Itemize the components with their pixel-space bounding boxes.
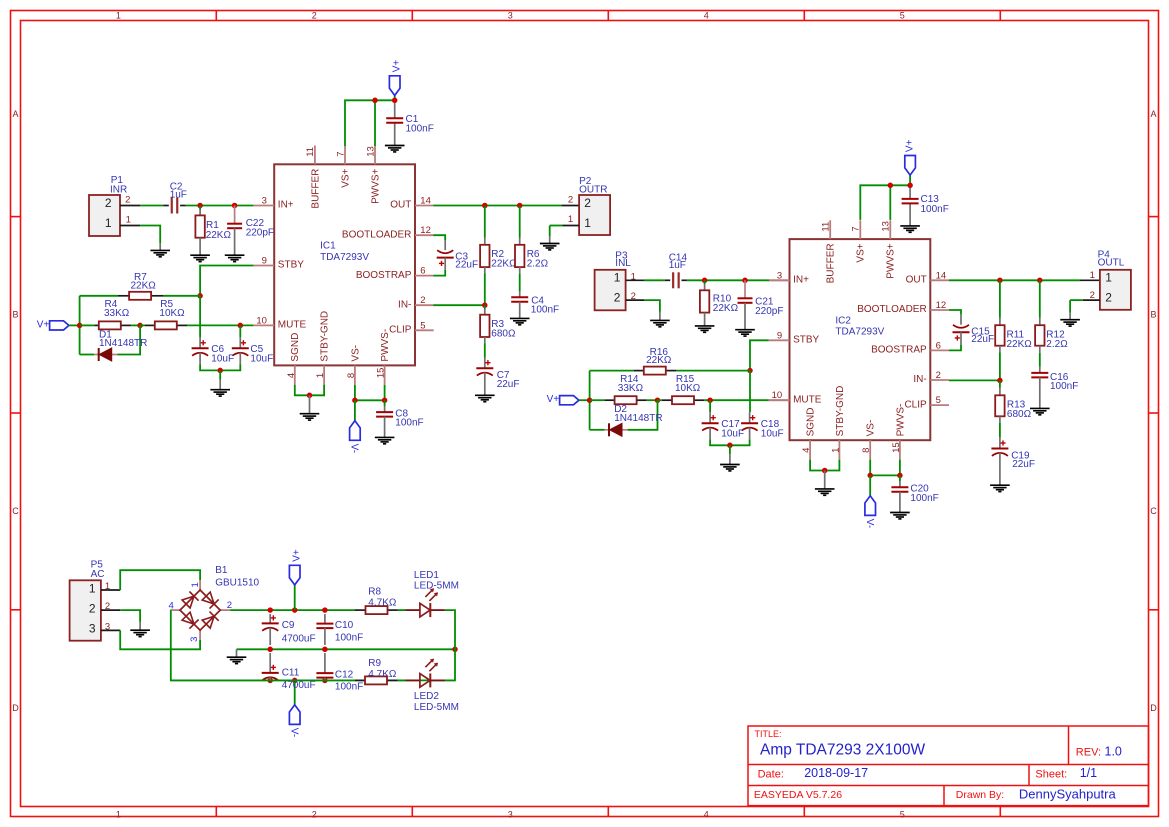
svg-text:2.2Ω: 2.2Ω	[527, 259, 549, 270]
svg-text:BOOTLOADER: BOOTLOADER	[857, 304, 926, 315]
svg-text:TITLE:: TITLE:	[755, 729, 782, 739]
svg-text:BOOSTRAP: BOOSTRAP	[356, 270, 412, 281]
svg-text:9: 9	[262, 256, 267, 267]
svg-text:PWVS+: PWVS+	[886, 243, 897, 278]
svg-text:2: 2	[105, 196, 112, 210]
svg-text:2: 2	[89, 601, 96, 615]
svg-text:B: B	[1150, 310, 1156, 320]
svg-text:7: 7	[851, 226, 862, 231]
svg-text:2: 2	[420, 295, 425, 306]
svg-text:V-: V-	[349, 444, 360, 453]
svg-text:GBU1510: GBU1510	[215, 578, 259, 589]
svg-text:C: C	[1150, 506, 1157, 516]
svg-text:V+: V+	[37, 319, 50, 330]
svg-text:10uF: 10uF	[250, 353, 273, 364]
svg-text:OUT: OUT	[390, 200, 411, 211]
svg-text:5: 5	[936, 395, 941, 406]
svg-text:2: 2	[614, 290, 621, 304]
svg-text:V-: V-	[864, 519, 875, 528]
svg-text:1: 1	[89, 581, 96, 595]
svg-text:LED2: LED2	[414, 691, 439, 702]
svg-text:100nF: 100nF	[406, 124, 434, 135]
svg-text:6: 6	[936, 340, 941, 351]
svg-text:LED-5MM: LED-5MM	[414, 702, 459, 713]
svg-text:1: 1	[315, 373, 326, 378]
svg-text:220pF: 220pF	[755, 306, 783, 317]
svg-text:V+: V+	[905, 139, 916, 152]
svg-text:10uF: 10uF	[761, 429, 784, 440]
svg-text:1/1: 1/1	[1080, 766, 1097, 780]
svg-text:2: 2	[125, 195, 130, 206]
svg-text:1: 1	[1090, 270, 1095, 281]
svg-text:IN+: IN+	[793, 275, 809, 286]
svg-text:DennySyahputra: DennySyahputra	[1019, 786, 1117, 801]
svg-text:22KΩ: 22KΩ	[491, 259, 517, 270]
svg-text:OUT: OUT	[906, 275, 927, 286]
svg-text:PWVS+: PWVS+	[370, 168, 381, 203]
svg-text:2: 2	[1105, 290, 1112, 304]
svg-text:3: 3	[189, 637, 200, 642]
svg-text:1N4148TR: 1N4148TR	[614, 413, 662, 424]
svg-text:4: 4	[704, 11, 709, 21]
svg-text:1uF: 1uF	[170, 189, 187, 200]
svg-text:100nF: 100nF	[910, 493, 938, 504]
svg-text:4: 4	[286, 373, 297, 378]
svg-text:3: 3	[262, 196, 267, 207]
svg-text:1N4148TR: 1N4148TR	[99, 338, 147, 349]
svg-text:C: C	[12, 506, 19, 516]
svg-text:CLIP: CLIP	[904, 399, 927, 410]
svg-text:22KΩ: 22KΩ	[646, 355, 672, 366]
svg-text:15: 15	[891, 442, 902, 453]
svg-text:220pF: 220pF	[246, 228, 274, 239]
svg-text:LED1: LED1	[414, 570, 439, 581]
svg-text:12: 12	[420, 225, 431, 236]
svg-text:Drawn By:: Drawn By:	[956, 789, 1004, 801]
svg-text:100nF: 100nF	[1050, 381, 1078, 392]
svg-text:4700uF: 4700uF	[282, 634, 316, 645]
svg-text:R8: R8	[368, 587, 381, 598]
svg-text:15: 15	[376, 368, 387, 379]
svg-text:1: 1	[614, 271, 621, 285]
svg-text:VS+: VS+	[856, 243, 867, 262]
svg-text:PWVS-: PWVS-	[380, 329, 391, 362]
svg-text:BUFFER: BUFFER	[826, 243, 837, 283]
svg-text:8: 8	[346, 373, 357, 378]
svg-text:TDA7293V: TDA7293V	[835, 327, 884, 338]
svg-text:3: 3	[508, 809, 513, 819]
svg-text:Amp TDA7293 2X100W: Amp TDA7293 2X100W	[760, 742, 926, 759]
svg-text:3: 3	[508, 11, 513, 21]
svg-text:22uF: 22uF	[455, 259, 478, 270]
svg-text:BUFFER: BUFFER	[310, 169, 321, 209]
svg-text:10uF: 10uF	[211, 353, 234, 364]
svg-text:11: 11	[821, 222, 832, 232]
svg-text:V-: V-	[288, 728, 299, 737]
svg-text:2: 2	[568, 194, 573, 205]
svg-text:1: 1	[830, 448, 841, 453]
svg-text:2: 2	[936, 370, 941, 381]
svg-text:STBY: STBY	[278, 260, 304, 271]
svg-text:IC2: IC2	[835, 316, 851, 327]
svg-text:OUTR: OUTR	[579, 184, 607, 195]
svg-text:BOOTLOADER: BOOTLOADER	[342, 229, 411, 240]
svg-text:C9: C9	[282, 620, 295, 631]
svg-text:2018-09-17: 2018-09-17	[804, 766, 868, 780]
svg-text:D: D	[1150, 703, 1157, 713]
svg-text:VS-: VS-	[866, 420, 877, 437]
svg-text:PWVS-: PWVS-	[895, 404, 906, 437]
svg-text:22uF: 22uF	[971, 334, 994, 345]
svg-text:22uF: 22uF	[497, 379, 520, 390]
svg-text:680Ω: 680Ω	[491, 328, 516, 339]
svg-text:IC1: IC1	[320, 241, 336, 252]
svg-text:7: 7	[335, 152, 346, 157]
svg-text:STBY-GND: STBY-GND	[320, 311, 331, 362]
svg-text:1: 1	[190, 582, 201, 587]
svg-text:680Ω: 680Ω	[1007, 409, 1032, 420]
svg-text:22uF: 22uF	[1012, 459, 1035, 470]
svg-text:12: 12	[936, 300, 947, 311]
svg-text:10: 10	[256, 315, 267, 326]
svg-text:A: A	[12, 109, 18, 119]
svg-text:1: 1	[105, 216, 112, 230]
svg-text:A: A	[1150, 109, 1156, 119]
svg-text:13: 13	[365, 146, 376, 157]
svg-text:2.2Ω: 2.2Ω	[1046, 339, 1068, 350]
svg-text:1: 1	[116, 11, 121, 21]
svg-text:BOOSTRAP: BOOSTRAP	[871, 345, 927, 356]
svg-text:1: 1	[1105, 271, 1112, 285]
svg-text:10KΩ: 10KΩ	[675, 383, 701, 394]
svg-text:AC: AC	[91, 569, 105, 580]
svg-text:3: 3	[89, 622, 96, 636]
svg-text:4.7KΩ: 4.7KΩ	[368, 598, 397, 609]
svg-text:V+: V+	[291, 549, 302, 562]
svg-text:10uF: 10uF	[721, 429, 744, 440]
svg-text:Sheet:: Sheet:	[1035, 768, 1067, 780]
svg-text:22KΩ: 22KΩ	[206, 230, 232, 241]
svg-text:5: 5	[900, 809, 905, 819]
svg-text:4700uF: 4700uF	[282, 680, 316, 691]
svg-text:SGND: SGND	[290, 333, 301, 362]
svg-text:1: 1	[126, 215, 131, 226]
svg-text:B1: B1	[215, 565, 228, 576]
svg-text:LED-5MM: LED-5MM	[414, 581, 459, 592]
svg-text:9: 9	[777, 330, 782, 341]
svg-text:C12: C12	[335, 669, 354, 680]
svg-text:33KΩ: 33KΩ	[618, 383, 644, 394]
svg-text:100nF: 100nF	[335, 633, 363, 644]
svg-text:VS+: VS+	[340, 168, 351, 187]
svg-text:D: D	[12, 703, 19, 713]
svg-text:14: 14	[420, 196, 431, 207]
svg-text:2: 2	[584, 196, 591, 210]
svg-text:22KΩ: 22KΩ	[1007, 339, 1033, 350]
svg-text:11: 11	[305, 147, 316, 157]
svg-text:4.7KΩ: 4.7KΩ	[368, 669, 397, 680]
svg-text:100nF: 100nF	[395, 418, 423, 429]
svg-text:REV:: REV:	[1076, 747, 1101, 759]
svg-text:8: 8	[861, 448, 872, 453]
svg-text:4: 4	[704, 809, 709, 819]
svg-text:2: 2	[312, 11, 317, 21]
svg-text:100nF: 100nF	[921, 204, 949, 215]
svg-text:IN+: IN+	[278, 200, 294, 211]
svg-text:1.0: 1.0	[1105, 745, 1122, 759]
svg-text:B: B	[12, 310, 18, 320]
svg-text:V+: V+	[547, 394, 560, 405]
svg-text:13: 13	[881, 221, 892, 232]
svg-text:5: 5	[900, 11, 905, 21]
svg-text:100nF: 100nF	[531, 304, 559, 315]
svg-text:C10: C10	[335, 620, 354, 631]
svg-text:MUTE: MUTE	[793, 394, 822, 405]
svg-text:4: 4	[801, 448, 812, 453]
svg-text:1: 1	[116, 809, 121, 819]
svg-text:STBY-GND: STBY-GND	[835, 386, 846, 437]
svg-text:IN-: IN-	[398, 299, 411, 310]
svg-text:V+: V+	[391, 60, 402, 73]
svg-text:SGND: SGND	[806, 407, 817, 436]
svg-text:IN-: IN-	[913, 374, 926, 385]
svg-text:22KΩ: 22KΩ	[131, 280, 157, 291]
svg-text:1uF: 1uF	[669, 260, 686, 271]
svg-text:10KΩ: 10KΩ	[159, 308, 185, 319]
svg-text:1: 1	[584, 216, 591, 230]
svg-text:MUTE: MUTE	[278, 320, 307, 331]
svg-text:33KΩ: 33KΩ	[104, 308, 130, 319]
svg-text:100nF: 100nF	[335, 681, 363, 692]
svg-text:STBY: STBY	[793, 335, 819, 346]
svg-text:INL: INL	[615, 258, 631, 269]
svg-text:OUTL: OUTL	[1098, 258, 1125, 269]
svg-text:22KΩ: 22KΩ	[713, 303, 739, 314]
svg-text:14: 14	[936, 270, 947, 281]
svg-text:5: 5	[420, 320, 425, 331]
svg-text:C11: C11	[282, 668, 300, 679]
svg-text:VS-: VS-	[350, 345, 361, 362]
svg-text:2: 2	[312, 809, 317, 819]
svg-text:CLIP: CLIP	[389, 325, 412, 336]
svg-text:6: 6	[420, 266, 425, 277]
svg-text:1: 1	[568, 214, 573, 225]
svg-text:4: 4	[169, 601, 174, 612]
svg-text:EASYEDA V5.7.26: EASYEDA V5.7.26	[754, 789, 842, 801]
svg-text:R9: R9	[368, 658, 381, 669]
svg-text:Date:: Date:	[758, 768, 784, 780]
svg-text:TDA7293V: TDA7293V	[320, 252, 369, 263]
